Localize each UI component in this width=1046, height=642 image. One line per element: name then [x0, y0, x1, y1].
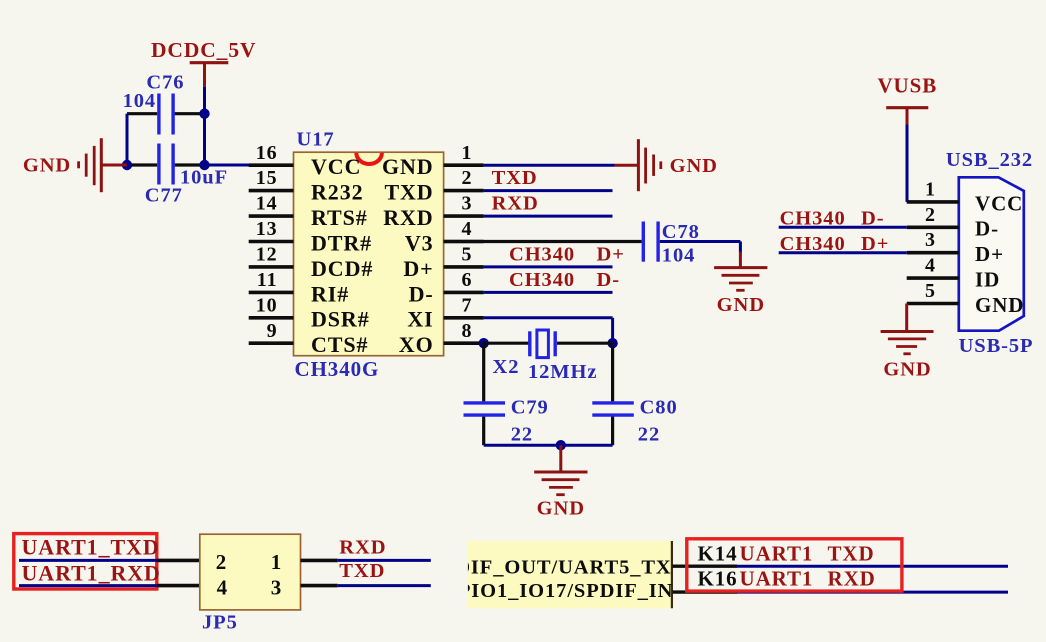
svg-text:3: 3 — [925, 229, 936, 251]
svg-text:C79: C79 — [511, 397, 549, 419]
U17 pin 11 (RI#) — [249, 269, 349, 306]
wire U17 pin4 V3 to C78 — [444, 240, 642, 243]
svg-text:XO: XO — [399, 332, 434, 357]
U17 pin 10 (DSR#) — [249, 294, 370, 331]
svg-text:X2: X2 — [493, 356, 520, 378]
net label box UART1_TXD / UART1_RXD (red highlight) — [14, 534, 161, 589]
wire U17 pin6 CH340 D- — [484, 269, 620, 293]
wire pin8 node down to C79 — [482, 343, 485, 401]
svg-text:15: 15 — [256, 167, 278, 189]
wire pin8 node to crystal — [484, 342, 529, 345]
ground GND below C78 — [714, 252, 767, 317]
svg-text:JP5: JP5 — [202, 612, 238, 634]
svg-text:5: 5 — [462, 244, 473, 266]
wire UART1_RXD to JP5 pin4 — [19, 584, 200, 587]
svg-text:22: 22 — [638, 424, 660, 446]
svg-text:16: 16 — [256, 142, 278, 164]
svg-text:11: 11 — [257, 269, 278, 291]
svg-text:D-: D- — [975, 217, 999, 241]
svg-text:14: 14 — [256, 193, 278, 215]
svg-text:D+: D+ — [975, 242, 1004, 266]
svg-text:GPIO1_IO17/SPDIF_IN: GPIO1_IO17/SPDIF_IN — [441, 580, 673, 602]
wire U17 pin7 XI to crystal — [484, 318, 613, 343]
svg-text:VUSB: VUSB — [877, 74, 937, 98]
U17 pin 12 (DCD#) — [249, 244, 374, 281]
svg-text:GND: GND — [717, 294, 765, 316]
svg-text:R232: R232 — [311, 180, 364, 205]
wire port to K14 row — [672, 565, 1008, 568]
svg-text:ID: ID — [975, 268, 1000, 292]
wire UART1_TXD to JP5 pin2 — [19, 559, 200, 562]
svg-text:UART1: UART1 — [740, 541, 814, 565]
svg-text:104: 104 — [662, 244, 695, 266]
svg-text:C78: C78 — [662, 221, 700, 243]
power flag DCDC_5V — [151, 38, 256, 88]
svg-text:4: 4 — [925, 255, 936, 277]
svg-text:DSR#: DSR# — [311, 307, 370, 332]
port box SPDIF_OUT/UART5_TX GPIO1_IO17/SPDIF_IN — [430, 541, 674, 608]
svg-text:RXD: RXD — [492, 192, 539, 214]
svg-text:D-: D- — [861, 207, 884, 229]
svg-text:4: 4 — [462, 218, 473, 240]
svg-text:USB-5P: USB-5P — [959, 335, 1034, 357]
ground GND at U17 pin1 — [615, 139, 718, 191]
svg-text:4: 4 — [217, 575, 228, 599]
U17 pin 3 (RXD) — [383, 193, 483, 230]
wire U17 pin3 RXD — [484, 192, 613, 216]
svg-text:GND: GND — [975, 293, 1024, 317]
USB_232 pin 1 (VCC) — [907, 178, 1024, 215]
wire JP5 pin1 RXD — [301, 536, 431, 560]
junction node at DCDC top wire — [199, 109, 209, 119]
wire junction to U17 pin16 — [205, 164, 250, 167]
wire crystal to pin7 node — [557, 342, 613, 345]
svg-text:K14: K14 — [698, 541, 738, 565]
svg-text:RI#: RI# — [311, 281, 349, 306]
wire port to K16 row — [672, 590, 1008, 593]
svg-text:CH340: CH340 — [780, 233, 846, 255]
capacitor C79 — [464, 397, 549, 446]
U17 pin 15 (R232) — [249, 167, 364, 204]
svg-text:1: 1 — [462, 142, 473, 164]
U17 pin 16 (VCC) — [249, 142, 362, 179]
U17 pin 5 (D+) — [403, 244, 483, 281]
USB_232 pin 2 (D-) — [907, 204, 999, 241]
svg-text:GND: GND — [537, 498, 585, 520]
wire CH340 D- to USB pin2 — [779, 207, 907, 229]
capacitor C80 — [592, 397, 677, 446]
svg-text:RXD: RXD — [339, 536, 386, 558]
U17 pin 1 (GND) — [382, 142, 484, 179]
svg-text:C77: C77 — [145, 185, 183, 207]
U17 pin 13 (DTR#) — [249, 218, 372, 255]
node bottom rail GND tap — [556, 440, 566, 450]
wire DCDC_5V vertical — [203, 87, 206, 165]
wire U17 pin1 to GND — [484, 164, 615, 167]
svg-text:10: 10 — [256, 294, 278, 316]
junction node at DCDC bottom wire — [199, 160, 209, 170]
svg-text:1: 1 — [271, 550, 282, 574]
svg-text:D+: D+ — [861, 233, 889, 255]
junction node at left vertical bottom — [122, 160, 132, 170]
wire U17 pin2 TXD — [484, 167, 613, 190]
svg-text:GND: GND — [382, 154, 434, 179]
svg-text:VCC: VCC — [311, 154, 361, 179]
wire cap-bank top horizontal — [127, 112, 205, 115]
wire cap-bank left vertical — [126, 114, 129, 165]
U17 pin 7 (XI) — [407, 294, 483, 331]
U17 pin 9 (CTS#) — [249, 320, 369, 357]
svg-text:2: 2 — [925, 204, 936, 226]
svg-text:D+: D+ — [403, 256, 433, 281]
net label box K14/K16 UART1 (red highlight) — [687, 539, 902, 591]
svg-text:UART1_RXD: UART1_RXD — [22, 561, 161, 586]
U17 notch (red arc) — [356, 153, 382, 164]
svg-text:D-: D- — [597, 269, 620, 291]
svg-text:CH340: CH340 — [509, 269, 575, 291]
svg-text:UART1: UART1 — [740, 567, 814, 591]
USB_232 pin 5 (GND) — [907, 280, 1025, 317]
svg-text:2: 2 — [462, 167, 473, 189]
svg-text:UART1_TXD: UART1_TXD — [22, 535, 160, 560]
svg-text:22: 22 — [511, 424, 533, 446]
svg-text:DCD#: DCD# — [311, 256, 373, 281]
ground GND below crystal rail — [534, 445, 587, 519]
ground GND below USB pin5 — [881, 304, 934, 381]
svg-text:CH340: CH340 — [509, 244, 575, 266]
svg-text:6: 6 — [462, 269, 473, 291]
svg-text:CH340G: CH340G — [295, 357, 380, 381]
U17 pin 2 (TXD) — [384, 167, 483, 204]
power flag VUSB — [877, 74, 937, 126]
svg-text:TXD: TXD — [828, 541, 875, 565]
wire CH340 D+ to USB pin3 — [779, 233, 907, 255]
svg-text:TXD: TXD — [384, 180, 433, 205]
U17 pin 14 (RTS#) — [249, 193, 368, 230]
svg-text:K16: K16 — [698, 567, 738, 591]
crystal X2 12MHz — [493, 330, 598, 383]
svg-text:RXD: RXD — [828, 567, 876, 591]
USB_232 pin 4 (ID) — [907, 255, 1000, 292]
svg-text:D-: D- — [409, 281, 434, 306]
capacitor C77 — [145, 144, 228, 207]
svg-text:104: 104 — [123, 90, 156, 112]
svg-text:12: 12 — [256, 244, 278, 266]
svg-text:GND: GND — [23, 155, 71, 177]
USB_232 pin 3 (D+) — [907, 229, 1004, 266]
connector JP5 body — [200, 534, 301, 633]
U17 pin 4 (V3) — [405, 218, 484, 255]
svg-text:TXD: TXD — [492, 167, 538, 189]
svg-text:8: 8 — [462, 320, 473, 342]
svg-text:C80: C80 — [640, 397, 678, 419]
wire crystal bottom rail — [484, 444, 613, 447]
wire C78 to GND corner — [660, 242, 741, 253]
svg-text:GND: GND — [670, 155, 718, 177]
svg-text:USB_232: USB_232 — [946, 149, 1033, 171]
svg-text:9: 9 — [267, 320, 278, 342]
capacitor C78 — [643, 221, 700, 267]
svg-text:D+: D+ — [597, 244, 625, 266]
svg-text:12MHz: 12MHz — [528, 361, 597, 383]
svg-text:13: 13 — [256, 218, 278, 240]
svg-text:XI: XI — [407, 307, 433, 332]
svg-text:TXD: TXD — [339, 560, 385, 582]
node U17 pin8 XO junction — [479, 338, 489, 348]
svg-text:3: 3 — [271, 575, 282, 599]
svg-text:DTR#: DTR# — [311, 230, 372, 255]
svg-text:2: 2 — [216, 550, 227, 574]
svg-text:VCC: VCC — [975, 191, 1023, 215]
wire U17 pin5 CH340 D+ — [484, 244, 625, 267]
svg-text:V3: V3 — [405, 230, 434, 255]
wire cap-bank bottom horizontal — [127, 163, 205, 166]
svg-text:3: 3 — [462, 193, 473, 215]
svg-text:GND: GND — [883, 359, 931, 381]
node crystal right junction — [607, 338, 617, 348]
wire VUSB to J1 pin1 — [906, 125, 909, 202]
capacitor C76 — [123, 71, 185, 134]
svg-text:CTS#: CTS# — [311, 332, 368, 357]
connector USB_232 body — [946, 149, 1034, 357]
wire pin7 node down to C80 — [611, 343, 614, 401]
wire JP5 pin3 TXD — [301, 560, 431, 586]
ground GND left of C76/C77 — [23, 138, 127, 192]
svg-text:DCDC_5V: DCDC_5V — [151, 38, 256, 62]
U17 pin 6 (D-) — [409, 269, 484, 306]
IC U17 CH340G body — [294, 129, 444, 382]
svg-text:U17: U17 — [297, 129, 335, 151]
svg-text:RXD: RXD — [383, 205, 433, 230]
svg-text:RTS#: RTS# — [311, 205, 368, 230]
svg-text:5: 5 — [925, 280, 936, 302]
U17 pin 8 (XO) — [399, 320, 484, 357]
svg-text:1: 1 — [925, 178, 936, 200]
wire C80 down to bottom rail — [611, 417, 614, 446]
svg-text:7: 7 — [462, 294, 473, 316]
svg-text:CH340: CH340 — [780, 207, 846, 229]
wire C79 down to bottom rail — [482, 417, 485, 446]
